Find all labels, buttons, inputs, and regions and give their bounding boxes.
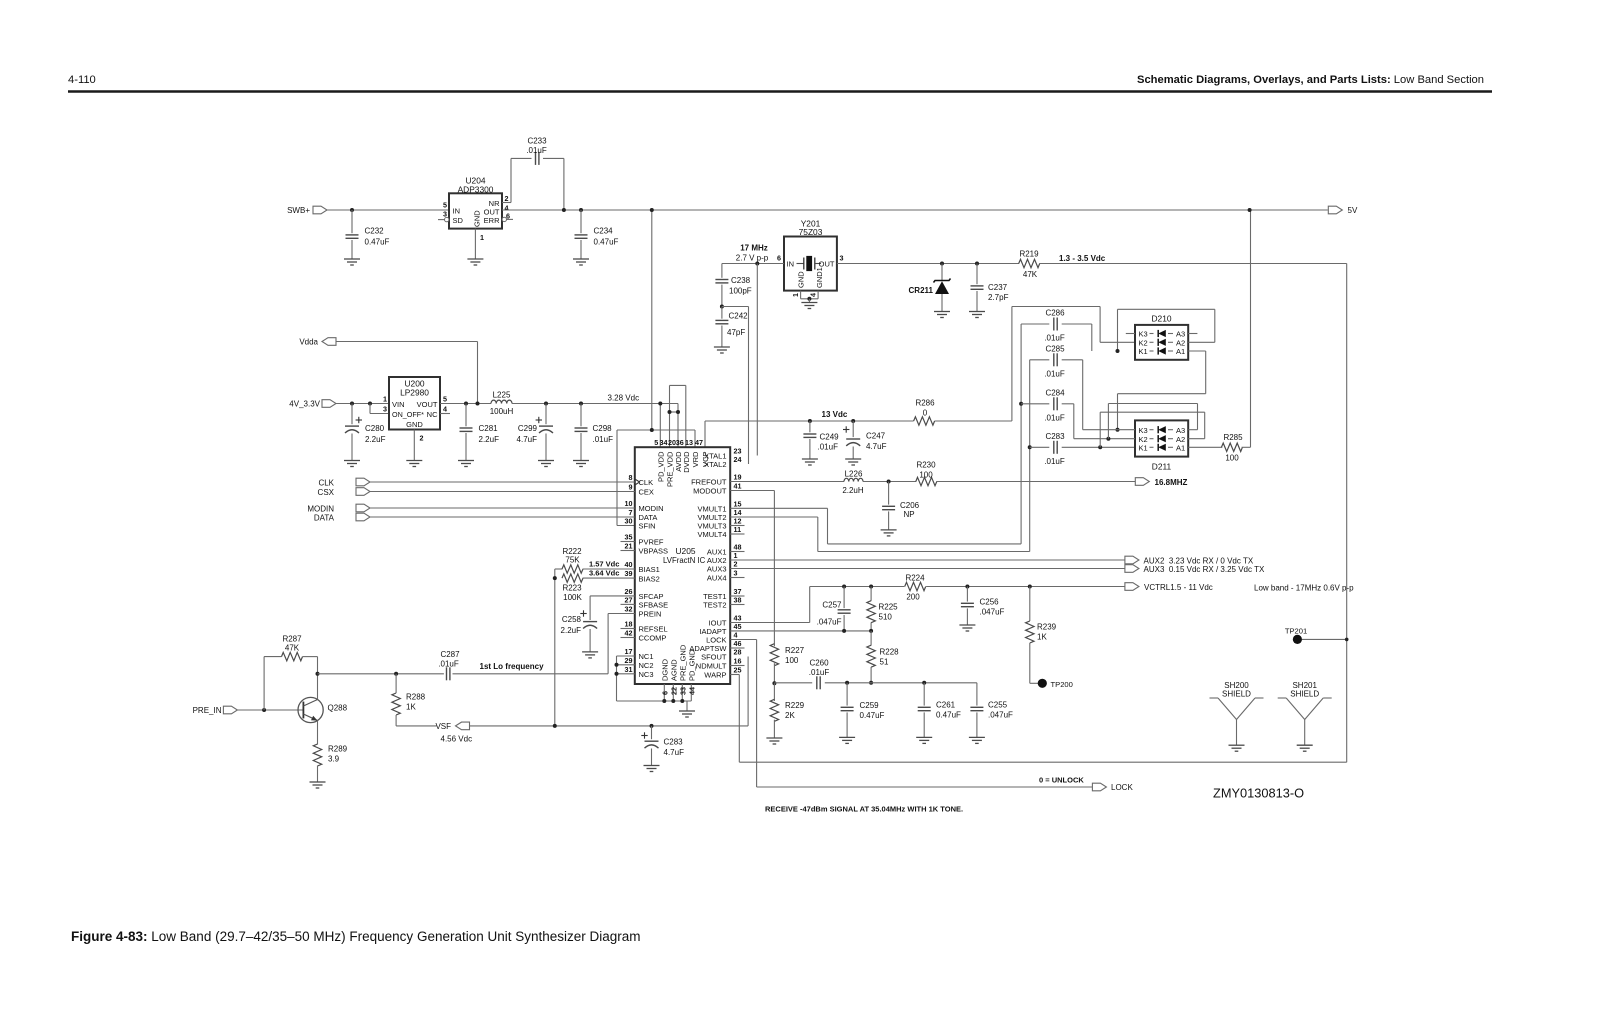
ground: [467, 258, 483, 260]
svg-text:5: 5: [654, 438, 658, 447]
svg-text:A1: A1: [1176, 347, 1185, 356]
svg-text:0 = UNLOCK: 0 = UNLOCK: [1039, 776, 1084, 785]
pin 12 VMULT3: [697, 517, 744, 531]
svg-text:C233: C233: [527, 137, 547, 146]
svg-text:.01uF: .01uF: [593, 435, 614, 444]
capacitor C299: [517, 404, 553, 461]
wire Y201 OUT line: [837, 263, 1019, 265]
svg-text:IN: IN: [787, 260, 795, 269]
ground: [644, 765, 660, 767]
junction: [845, 681, 849, 685]
svg-text:19: 19: [734, 473, 742, 482]
diode array D210: [1135, 314, 1188, 360]
svg-text:R289: R289: [328, 745, 348, 754]
capacitor C283 4.7uF: [641, 726, 684, 766]
svg-text:K1: K1: [1139, 444, 1148, 453]
svg-text:SHIELD: SHIELD: [1222, 689, 1251, 698]
port Vdda: [299, 338, 336, 347]
pin 23 XTAL1: [704, 447, 741, 461]
junction: [650, 724, 654, 728]
capacitor C258: [561, 610, 598, 652]
wire PD_VDD riser: [659, 404, 661, 448]
pin 38 TEST2: [703, 596, 744, 610]
svg-text:16.8MHZ: 16.8MHZ: [1155, 478, 1188, 487]
svg-text:R224: R224: [905, 574, 925, 583]
svg-text:NC3: NC3: [639, 670, 654, 679]
wire CSX: [370, 491, 635, 493]
pin 6 DGND: [660, 658, 669, 701]
port DATA: [314, 513, 370, 522]
svg-text:C256: C256: [980, 598, 1000, 607]
resistor R286: [914, 399, 936, 426]
pin 32 PREIN: [625, 605, 662, 619]
svg-text:DGND: DGND: [661, 658, 670, 681]
svg-text:FREFOUT: FREFOUT: [691, 478, 727, 487]
svg-text:2.2uF: 2.2uF: [561, 626, 582, 635]
junction: [650, 428, 654, 432]
wire AVDD riser: [677, 404, 679, 448]
junction: [869, 585, 873, 589]
svg-text:C285: C285: [1045, 344, 1065, 353]
svg-text:34: 34: [660, 438, 668, 447]
svg-text:30: 30: [625, 517, 633, 526]
svg-text:16: 16: [734, 657, 742, 666]
capacitor C242: [715, 307, 748, 348]
pin 9 CEX: [629, 483, 654, 497]
pin 48 AUX1: [707, 543, 745, 557]
resistor R287: [264, 635, 317, 661]
svg-text:1: 1: [480, 233, 484, 242]
junction: [922, 681, 926, 685]
junction: [676, 410, 680, 414]
wire 5V rail: [502, 209, 1328, 211]
svg-text:VBPASS: VBPASS: [639, 547, 668, 556]
junction: [544, 402, 548, 406]
svg-text:D210: D210: [1151, 314, 1171, 324]
junction: [808, 419, 812, 423]
wire D211 K3: [1083, 429, 1135, 431]
junction: [464, 402, 468, 406]
wire 3.28V rail: [512, 403, 678, 405]
pin 25 WARP: [704, 666, 741, 680]
svg-text:75K: 75K: [565, 556, 580, 565]
junction: [851, 419, 855, 423]
svg-text:PRE_IN: PRE_IN: [193, 706, 222, 715]
junction: [772, 681, 776, 685]
capacitor C234: [575, 210, 619, 259]
pin 5 PD_VDD: [654, 438, 665, 482]
ground: [845, 458, 861, 460]
junction: [1028, 445, 1032, 449]
svg-text:MODIN: MODIN: [639, 504, 664, 513]
ground: [969, 736, 985, 738]
wire AVDD jog: [670, 411, 679, 413]
port 16.8MHZ: [1135, 478, 1187, 487]
svg-text:1.57 Vdc: 1.57 Vdc: [589, 560, 619, 569]
wire 5V drop: [651, 210, 653, 430]
capacitor C232: [346, 210, 390, 259]
capacitor C280: [345, 404, 386, 461]
pin 13 VRD: [685, 438, 700, 467]
wire emitter: [317, 721, 319, 745]
wire to ground: [317, 766, 319, 783]
pin D210 A3 stub: [1188, 333, 1197, 335]
resistor R223: [562, 574, 583, 602]
ground: [934, 311, 950, 313]
wire VMULT1 chain: [730, 508, 1021, 544]
wire Vdda: [336, 342, 478, 404]
svg-text:2: 2: [420, 434, 424, 443]
junction: [668, 410, 672, 414]
svg-text:22: 22: [669, 687, 678, 695]
junction: [553, 724, 557, 728]
svg-text:C299: C299: [518, 424, 538, 433]
port VCTRL: [1125, 583, 1213, 592]
transistor Q288: [298, 697, 348, 722]
wire CLK: [370, 481, 635, 483]
pin 46 ADAPTSW: [689, 639, 744, 653]
svg-text:R229: R229: [785, 701, 805, 710]
svg-text:TP200: TP200: [1051, 680, 1073, 689]
wire VRD riser: [694, 430, 696, 447]
pin 29 NC2: [625, 656, 654, 670]
svg-text:C283: C283: [664, 738, 684, 747]
wire 1st LO line: [318, 673, 444, 675]
svg-text:3.9: 3.9: [328, 755, 340, 764]
pin 10 MODIN: [625, 499, 664, 513]
ground: [458, 460, 474, 462]
junction: [1116, 428, 1120, 432]
svg-text:R285: R285: [1223, 433, 1243, 442]
capacitor C298: [575, 404, 614, 461]
wire C233 to OUT: [543, 158, 564, 210]
svg-text:Schematic Diagrams, Overlays,: Schematic Diagrams, Overlays, and Parts …: [1137, 74, 1484, 86]
label 17 MHz: [736, 244, 769, 263]
port AUX3: [1125, 565, 1265, 574]
svg-text:PRE_GND: PRE_GND: [679, 644, 688, 681]
svg-text:R219: R219: [1019, 250, 1039, 259]
pin 22 AGND: [669, 659, 678, 701]
svg-text:C255: C255: [988, 701, 1008, 710]
ground: [969, 311, 985, 313]
pin 24 XTAL2: [704, 455, 741, 469]
svg-text:GND: GND: [406, 420, 423, 429]
svg-text:MODIN: MODIN: [307, 504, 334, 513]
svg-text:AUX3 0.15 Vdc RX / 3.25 Vdc T: AUX3 0.15 Vdc RX / 3.25 Vdc TX: [1144, 565, 1265, 574]
junction: [262, 708, 266, 712]
wire WARP loop: [730, 264, 1346, 763]
svg-text:R287: R287: [282, 635, 302, 644]
svg-text:GND: GND: [797, 271, 806, 288]
pin 36 DVDD: [676, 438, 691, 473]
junction: [1248, 208, 1252, 212]
svg-text:R227: R227: [785, 646, 805, 655]
svg-text:NP: NP: [904, 510, 915, 519]
resistor R239: [1026, 587, 1057, 684]
svg-text:SFBASE: SFBASE: [639, 601, 669, 610]
svg-text:K1: K1: [1139, 347, 1148, 356]
svg-text:A1: A1: [1176, 444, 1185, 453]
port MODIN: [307, 504, 370, 513]
svg-text:NC: NC: [427, 410, 438, 419]
svg-text:BIAS2: BIAS2: [639, 574, 660, 583]
header rule: [68, 90, 1492, 92]
svg-text:33: 33: [678, 687, 687, 695]
svg-text:4: 4: [809, 293, 818, 297]
junction: [316, 672, 320, 676]
junction: [615, 672, 619, 676]
wire ground bus: [617, 700, 692, 702]
svg-text:L225: L225: [493, 391, 511, 400]
pin 47 VCP: [695, 438, 710, 467]
svg-text:0.47uF: 0.47uF: [860, 711, 885, 720]
svg-text:39: 39: [625, 569, 633, 578]
inductor L226: [842, 469, 864, 495]
capacitor C247: [843, 421, 887, 459]
junction: [615, 663, 619, 667]
junction: [579, 402, 583, 406]
svg-text:31: 31: [625, 665, 633, 674]
port LOCK: [1092, 783, 1133, 792]
svg-text:0.47uF: 0.47uF: [936, 711, 961, 720]
svg-text:C257: C257: [822, 601, 842, 610]
junction: [658, 402, 662, 406]
capacitor C256: [961, 587, 1005, 626]
junction: [720, 305, 724, 309]
ground: [916, 736, 932, 738]
svg-text:38: 38: [734, 596, 742, 605]
svg-text:R228: R228: [880, 648, 900, 657]
junction: [553, 576, 557, 580]
wire R287 left leg: [263, 657, 265, 710]
wire LOCK: [730, 640, 1092, 788]
crystal oscillator Y201: [777, 219, 844, 291]
svg-text:100: 100: [919, 470, 933, 479]
svg-text:CEX: CEX: [639, 488, 654, 497]
svg-text:PREIN: PREIN: [639, 610, 662, 619]
svg-text:C286: C286: [1045, 309, 1065, 318]
svg-text:TEST2: TEST2: [703, 601, 726, 610]
svg-text:Vdda: Vdda: [299, 338, 318, 347]
capacitor C206: [882, 482, 920, 530]
junction: [680, 699, 684, 703]
junction: [650, 208, 654, 212]
svg-text:36: 36: [676, 438, 684, 447]
ground: [310, 781, 326, 783]
pin 26 SFCAP: [625, 587, 664, 601]
svg-text:C261: C261: [936, 701, 956, 710]
resistor R219: [1019, 250, 1040, 279]
svg-text:IN: IN: [453, 207, 461, 216]
svg-text:ERR: ERR: [484, 216, 500, 225]
wire SFCAP: [590, 596, 635, 620]
svg-text:100K: 100K: [563, 593, 582, 602]
svg-text:2: 2: [734, 560, 738, 569]
pin 31 NC3: [625, 665, 654, 679]
svg-text:100: 100: [1225, 454, 1239, 463]
pin 33 PRE_GND: [678, 644, 687, 701]
wire U204 pin1 GND: [474, 229, 476, 259]
wire D210 K1-A2 loop: [1118, 309, 1215, 351]
wire 13Vdc riser: [1011, 307, 1013, 422]
port CSX: [318, 488, 370, 497]
svg-text:47K: 47K: [285, 644, 300, 653]
svg-text:1: 1: [791, 293, 800, 297]
wire VOUT 3.28V rail: [440, 403, 491, 405]
pin 28 SFOUT: [701, 648, 741, 662]
junction: [842, 585, 846, 589]
wire MODIN: [370, 507, 635, 509]
resistor R227: [770, 644, 804, 666]
svg-text:TP201: TP201: [1285, 626, 1307, 635]
svg-text:47K: 47K: [1023, 270, 1038, 279]
svg-text:DVDD: DVDD: [682, 451, 691, 473]
svg-text:C260: C260: [809, 659, 829, 668]
pin 21 VBPASS: [621, 542, 668, 556]
svg-text:PVREF: PVREF: [639, 538, 664, 547]
svg-text:3: 3: [383, 405, 387, 414]
svg-text:C242: C242: [729, 312, 749, 321]
wire to 16.8MHZ: [936, 481, 1135, 483]
svg-text:24: 24: [734, 455, 742, 464]
wire PRE_VDD-DVDD loop top: [670, 384, 686, 386]
svg-text:C280: C280: [365, 424, 385, 433]
svg-text:Q288: Q288: [328, 704, 348, 713]
ground: [959, 624, 975, 626]
svg-text:8: 8: [629, 473, 633, 482]
port 4V_3.3V: [289, 400, 336, 409]
resistor R230: [916, 461, 937, 486]
svg-text:17: 17: [625, 647, 633, 656]
junction: [1098, 445, 1102, 449]
capacitor C287: [438, 650, 460, 681]
wire VMULT2 chain: [730, 517, 1029, 552]
svg-text:6: 6: [660, 691, 669, 695]
pin NC stub: [440, 413, 450, 415]
wire Y201 IN line: [722, 263, 784, 265]
svg-text:41: 41: [734, 482, 742, 491]
svg-text:LP2980: LP2980: [400, 388, 429, 398]
svg-text:4.7uF: 4.7uF: [866, 442, 887, 451]
svg-text:A3: A3: [1176, 330, 1185, 339]
svg-text:3: 3: [840, 254, 844, 263]
wire SFIN-VRD rail: [617, 430, 695, 526]
pin 8 CLK: [629, 473, 654, 487]
svg-text:GND1: GND1: [815, 267, 824, 288]
wire D211 K2: [1074, 438, 1135, 440]
svg-text:BIAS1: BIAS1: [639, 565, 660, 574]
svg-text:C234: C234: [594, 227, 614, 236]
svg-text:C237: C237: [988, 283, 1008, 292]
svg-text:CLK: CLK: [639, 478, 654, 487]
svg-text:11: 11: [734, 525, 742, 534]
svg-text:A2: A2: [1176, 339, 1185, 348]
shield SH201: [1278, 681, 1332, 751]
wire gnd stub: [686, 701, 688, 711]
ground: [573, 258, 589, 260]
svg-text:25: 25: [734, 666, 742, 675]
test point TP200: [1030, 679, 1073, 689]
svg-text:40: 40: [625, 560, 633, 569]
junction: [394, 672, 398, 676]
port 5V: [1328, 206, 1358, 215]
svg-text:200: 200: [906, 592, 920, 601]
pin 34 PRE_VDD: [660, 438, 675, 487]
svg-text:D211: D211: [1152, 462, 1172, 472]
svg-text:100pF: 100pF: [729, 287, 752, 296]
svg-text:VRD: VRD: [691, 451, 700, 467]
wire C286 to D210 K1: [1091, 324, 1093, 351]
junction: [755, 262, 759, 266]
pin 45 IADAPT: [699, 622, 741, 636]
wire XTAL1 riser: [756, 264, 758, 456]
junction: [842, 629, 846, 633]
capacitor C284: [1021, 388, 1074, 422]
junction: [368, 402, 372, 406]
wire D211 K2-A3 loop: [1108, 404, 1197, 439]
pin 16 NDMULT: [696, 657, 745, 671]
pin 3 AUX4: [707, 569, 745, 583]
svg-text:47pF: 47pF: [727, 328, 745, 337]
svg-text:NC1: NC1: [639, 652, 654, 661]
svg-text:3.64 Vdc: 3.64 Vdc: [589, 569, 619, 578]
svg-text:A3: A3: [1176, 426, 1185, 435]
synthesizer U205: [635, 447, 730, 684]
svg-text:DATA: DATA: [314, 513, 335, 522]
svg-text:REFSEL: REFSEL: [639, 625, 668, 634]
svg-text:ON_OFF*: ON_OFF*: [392, 410, 424, 419]
svg-text:C258: C258: [562, 615, 582, 624]
wire R223 to BIAS2: [583, 577, 635, 579]
svg-text:VOUT: VOUT: [417, 400, 438, 409]
svg-text:XTAL2: XTAL2: [704, 460, 726, 469]
svg-text:15: 15: [734, 499, 742, 508]
svg-text:.047uF: .047uF: [980, 608, 1005, 617]
wire R227 to node: [773, 663, 775, 683]
wire D210 A1 chain: [1118, 351, 1206, 430]
wire VCTRL line: [810, 586, 1125, 588]
svg-text:1.3 - 3.5 Vdc: 1.3 - 3.5 Vdc: [1059, 254, 1106, 263]
pin 2 AUX3: [707, 560, 738, 574]
svg-text:RECEIVE -47dBm SIGNAL AT 35.04: RECEIVE -47dBm SIGNAL AT 35.04MHz WITH 1…: [765, 805, 963, 814]
test point TP201: [1285, 626, 1349, 644]
pin 1 AUX2: [707, 551, 738, 565]
svg-text:4-110: 4-110: [68, 74, 96, 86]
svg-text:CCOMP: CCOMP: [639, 634, 667, 643]
resistor R285: [1221, 433, 1243, 463]
pin 18 REFSEL: [621, 620, 668, 634]
junction: [1019, 402, 1023, 406]
ground: [582, 651, 598, 653]
svg-text:4.7uF: 4.7uF: [664, 748, 685, 757]
svg-text:SHIELD: SHIELD: [1290, 689, 1319, 698]
svg-text:35: 35: [625, 533, 633, 542]
svg-text:42: 42: [625, 629, 633, 638]
wire C284 to D211 K2: [1073, 404, 1075, 439]
svg-text:Figure 4-83: Low Band (29.7–42: Figure 4-83: Low Band (29.7–42/35–50 MHz…: [71, 929, 641, 944]
junction: [1028, 585, 1032, 589]
capacitor C257: [817, 587, 851, 631]
ground: [344, 460, 360, 462]
wire PRE_VDD riser: [669, 385, 671, 447]
svg-text:R230: R230: [916, 461, 936, 470]
svg-text:4.56 Vdc: 4.56 Vdc: [441, 735, 473, 744]
wire R222 left: [555, 569, 563, 726]
ground: [573, 460, 589, 462]
svg-text:47: 47: [695, 438, 703, 447]
svg-text:51: 51: [880, 658, 889, 667]
wire 1.3-3.5Vdc line: [1039, 263, 1346, 265]
